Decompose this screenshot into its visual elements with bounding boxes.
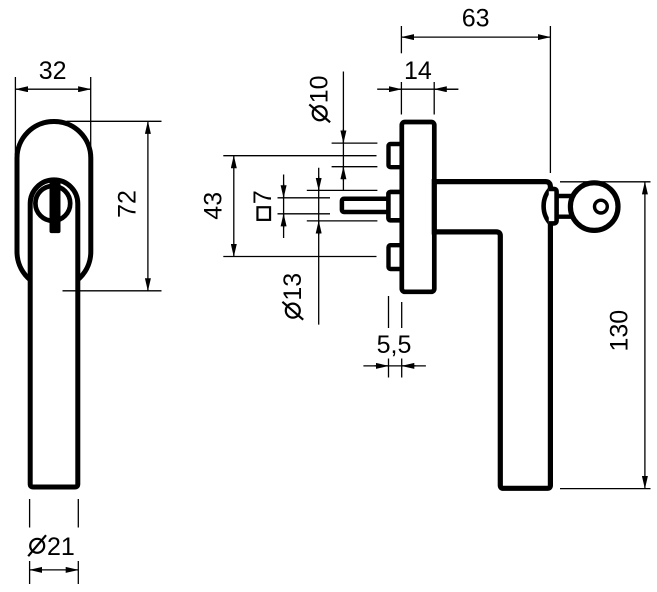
dim 63: dimension line [401,36,550,38]
svg-text:21: 21 [47,533,75,561]
spindle boss Ø13 [388,192,403,220]
svg-text:72: 72 [113,190,141,218]
dim Ø10: label [306,75,334,122]
key head [570,183,618,231]
dim square7: label [249,190,277,220]
dim 130: bottom extension line [560,488,651,490]
dim 72: extension lines [63,121,162,290]
svg-text:7: 7 [249,190,277,204]
dim 32: extension lines [15,77,90,157]
svg-text:14: 14 [404,57,432,85]
bottom mounting pin [389,245,404,269]
dim 43: extension lines [223,156,376,257]
handle grip (front) [30,180,78,487]
130 top extension line [560,181,651,183]
cylinder dome [544,188,552,225]
handle lever (side) [434,182,550,489]
dim Ø10: extension lines [332,143,378,167]
svg-text:5,5: 5,5 [377,331,412,359]
dim 5,5: extension lines [389,296,402,378]
dim 43: label [200,192,228,220]
dim 72: dimension line [147,121,149,290]
dim Ø13: arrows [318,168,320,325]
top mounting pin Ø10 [389,144,404,167]
dim 63: extension lines [401,26,550,173]
dim 14: extension lines [401,82,434,115]
dim 130: label [606,310,634,352]
key hole [595,200,608,213]
spindle square shaft [342,199,390,212]
dim 130: dimension line [644,182,646,489]
dim Ø13: extension lines [307,190,378,221]
cylinder escutcheon [549,189,557,224]
key neck [557,194,573,198]
dim 32: dimension line [15,88,90,90]
dim 72: label [113,190,141,218]
key slot bar [50,178,61,233]
dim Ø13: label [279,273,307,320]
dim 5,5: arrows [363,365,426,367]
dim Ø10: arrows [342,72,344,191]
svg-text:10: 10 [306,75,334,103]
svg-text:32: 32 [39,57,67,85]
svg-text:63: 63 [462,5,490,33]
dim square7: arrows [283,175,285,239]
cylinder dome eraser [547,190,555,223]
svg-text:13: 13 [279,273,307,301]
dim 14: arrows [377,88,458,90]
dim square7: extension lines [278,198,331,214]
dim 43: dimension line [233,156,235,257]
lock cylinder ring [35,186,70,221]
dim Ø21: label [28,535,46,556]
svg-text:43: 43 [200,192,228,220]
rosette outline (stadium) [17,122,91,289]
dim Ø21: extension lines [30,499,79,584]
dim Ø21: dimension line [30,569,79,571]
base plate (side) [402,122,435,292]
svg-text:130: 130 [606,310,634,352]
